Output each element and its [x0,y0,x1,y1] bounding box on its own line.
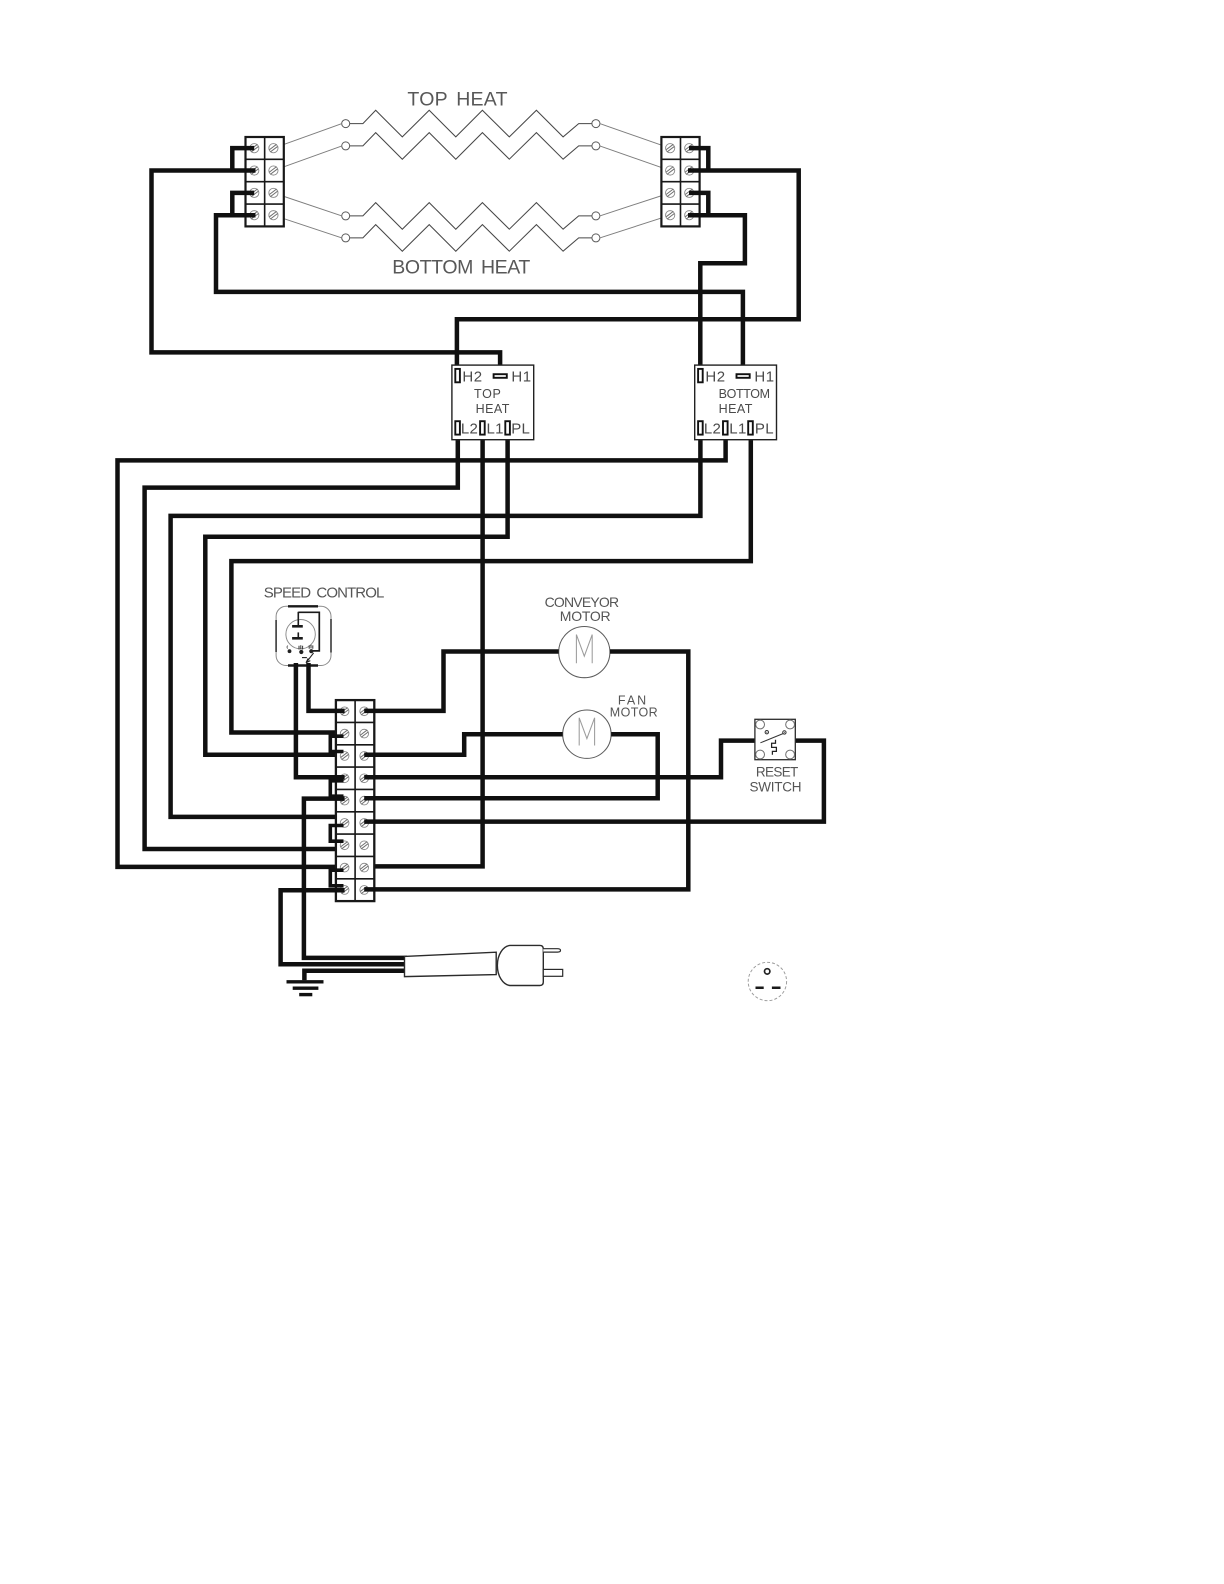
wire thermostat BOTTOM HEAT PL to strip TB3 row2 [231,432,750,733]
wire jumper TB3 rows2-3 [330,736,343,751]
wire TB3 row1 to conveyor motor M1 [364,652,558,711]
svg-text:BOTTOM HEAT: BOTTOM HEAT [392,257,530,279]
svg-text:H1: H1 [511,368,531,385]
round connector receptacle [748,962,786,1000]
wire TB1 row2 to thermostat TOP HEAT terminal H1 [152,171,501,377]
wire jumper TB3 rows8-9 [330,870,343,886]
wire TB1 row3-row4 jumper [232,193,254,215]
wire TB3 row3 to fan motor M2 [364,734,562,755]
svg-text:L1: L1 [487,420,504,437]
wire speed control right pin to TB3 row1 [309,663,345,711]
wire thermostat TOP HEAT L1 to strip TB3 row8 right [364,432,482,866]
wire thermostat TOP HEAT PL to strip TB3 row3 [205,432,507,755]
wire TB2 row3-row4 jumper [689,193,708,215]
wire conveyor motor M1 to TB3 row9 right [364,652,688,890]
terminal strip TB3 [336,700,374,901]
wire thermostat TOP HEAT L2 to strip TB3 row7 [145,432,458,849]
svg-text:H2: H2 [705,368,725,385]
wire TB1 to element leads (thin) [273,124,670,238]
ground symbol [287,982,324,995]
label FAN MOTOR [610,693,658,719]
svg-text:MOTOR: MOTOR [560,608,611,624]
motor M2 fan [563,710,611,758]
terminal block TB2 (right) [661,137,699,226]
svg-text:HEAT: HEAT [476,402,510,416]
plug P1 body [497,945,562,985]
resistor heating element TOP HEAT 2 [342,133,600,160]
svg-text:L2: L2 [704,420,721,437]
motor M1 conveyor [559,627,610,678]
svg-text:PL: PL [755,420,774,437]
svg-text:L1: L1 [729,420,746,437]
wire jumper TB3 rows6-7 [330,826,343,842]
wire thermostat BOTTOM HEAT L1 to strip TB3 row8 [118,432,726,867]
svg-text:RESET: RESET [756,764,798,779]
wire TB3 row9 to power cord [281,890,407,964]
thermostat TOP HEAT [452,365,534,440]
svg-text:MOTOR: MOTOR [610,705,658,719]
label RESET SWITCH [750,764,802,794]
resistor heating element BOTTOM HEAT 1 [342,203,600,230]
wire power cord to ground [304,971,407,981]
speed control SC1 [276,606,331,665]
svg-text:TOP: TOP [474,387,502,401]
resistor heating element TOP HEAT 1 [342,110,600,137]
switch S1 reset [755,719,795,759]
svg-text:BOTTOM: BOTTOM [719,387,770,401]
terminal block TB1 (left) [246,137,284,226]
wire TB3 row5 to power cord [304,799,407,958]
svg-text:TOP HEAT: TOP HEAT [407,89,507,111]
wire TB1 row1-row2 jumper [232,148,254,170]
svg-text:H1: H1 [754,368,774,385]
wire TB3 row4 to reset switch S1 [364,741,755,778]
svg-text:HEAT: HEAT [719,402,753,416]
wire fan motor M2 to TB3 row5 right [364,734,658,798]
wire TB2 row2 to thermostat TOP HEAT terminal H2 [457,171,799,372]
thermostat BOTTOM HEAT [695,365,777,440]
svg-text:SWITCH: SWITCH [750,779,802,794]
wire TB1 row4 to thermostat BOTTOM HEAT terminal H1 [216,215,743,376]
wire TB2 row4 to thermostat BOTTOM HEAT terminal H2 [688,215,745,372]
svg-text:H2: H2 [462,368,482,385]
wire speed control left pin to TB3 row4 [296,663,345,777]
label CONVEYOR MOTOR [545,594,619,624]
svg-text:PL: PL [511,420,530,437]
wire TB2 row1-row2 jumper [689,148,708,170]
svg-text:SPEED CONTROL: SPEED CONTROL [264,585,384,602]
wire jumper TB3 rows4-5 [330,781,343,796]
power cord strain relief [405,952,497,976]
resistor heating element BOTTOM HEAT 2 [342,225,600,252]
wire thermostat BOTTOM HEAT L2 to strip TB3 row6 [171,432,701,817]
wire reset switch S1 to TB3 row6 right [364,741,824,822]
svg-text:L2: L2 [461,420,478,437]
